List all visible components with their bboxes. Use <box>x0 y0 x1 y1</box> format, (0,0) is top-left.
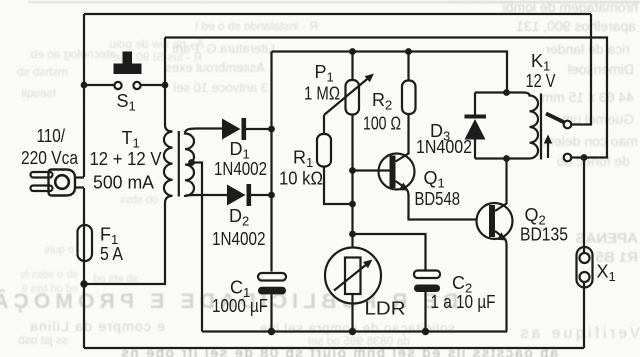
node LDR C2 branch junction <box>349 231 356 238</box>
transformer T1 <box>85 85 227 284</box>
svg-text:mao con deleito: mao con deleito <box>539 133 638 149</box>
svg-text:tseuqil: tseuqil <box>21 86 56 100</box>
resistor R2 100 ohm <box>363 52 416 155</box>
svg-text:hromatagem de lombi: hromatagem de lombi <box>503 0 638 15</box>
svg-text:1N4002: 1N4002 <box>212 229 266 249</box>
svg-text:Literatura G. Parti: Literatura G. Parti <box>172 41 275 56</box>
node C1 ground <box>268 328 275 335</box>
wire P1 wiper bus vertical <box>351 115 353 259</box>
wire X1 top lead <box>583 158 585 255</box>
transistor Q1 BD548 <box>353 152 461 209</box>
svg-text:sb o sdss ls: sb o sdss ls <box>20 269 78 281</box>
svg-text:ab oaçstss ils ed sel bnm oiur: ab oaçstss ils ed sel bnm oiurt sb 08 de… <box>120 345 558 357</box>
node junction S1 right <box>162 82 169 89</box>
svg-text:1000 µF: 1000 µF <box>212 296 268 316</box>
svg-text:BD548: BD548 <box>415 189 461 209</box>
wire rectifier output vertical <box>270 52 272 272</box>
svg-text:44 63 x 15 mm: 44 63 x 15 mm <box>541 89 634 105</box>
fuse F1 <box>78 225 124 265</box>
svg-text:ss jst osb: ss jst osb <box>18 333 68 347</box>
node fuse T1 junction <box>80 280 87 287</box>
svg-text:o quis: o quis <box>44 244 74 256</box>
wire outer bottom rail <box>84 347 584 349</box>
capacitor C2 <box>414 271 496 332</box>
node T1 center tap <box>188 159 195 166</box>
svg-text:Verifique as: Verifique as <box>517 325 640 342</box>
wire X1 bottom lead <box>583 281 585 348</box>
wire relay armature feed right side <box>571 14 591 125</box>
svg-text:3 antvoce 10 sel: 3 antvoce 10 sel <box>173 80 268 95</box>
node D1 cathode junction <box>268 126 275 133</box>
svg-text:500 mA: 500 mA <box>93 173 154 193</box>
svg-text:BD135: BD135 <box>520 225 568 245</box>
node P1 top <box>349 48 356 55</box>
relay armature and contacts <box>544 114 572 162</box>
wire left vertical rail <box>83 14 85 348</box>
svg-text:5 A: 5 A <box>100 244 123 264</box>
node D2 cathode junction <box>268 192 275 199</box>
svg-text:1N4002: 1N4002 <box>416 137 472 157</box>
svg-text:R - lnstalando sb o ed l: R - lnstalando sb o ed l <box>195 19 318 33</box>
node Q1 base junction <box>349 167 356 174</box>
capacitor C1 1000uF <box>212 273 286 332</box>
resistor R1 10k <box>279 115 353 204</box>
svg-text:1 a 10 µF: 1 a 10 µF <box>431 292 496 312</box>
svg-text:aparelhos 900, 131: aparelhos 900, 131 <box>516 18 636 34</box>
plug 110/220 Vca <box>21 126 84 196</box>
terminal X1 <box>577 247 616 288</box>
wire center tap to ground rail <box>192 163 203 332</box>
svg-text:mshsb sb: mshsb sb <box>16 65 68 79</box>
svg-text:1 MΩ: 1 MΩ <box>304 84 340 104</box>
svg-text:10 kΩ: 10 kΩ <box>279 169 323 189</box>
svg-text:12 + 12 V: 12 + 12 V <box>90 149 162 169</box>
svg-text:220 Vca: 220 Vca <box>21 148 79 168</box>
node X1 top junction <box>581 154 588 161</box>
wire +12V top rail <box>272 52 508 93</box>
node relay 12V top <box>503 89 510 96</box>
svg-text:100 Ω: 100 Ω <box>363 114 401 134</box>
wire outer top rail <box>84 13 591 15</box>
svg-text:12 V: 12 V <box>526 71 556 91</box>
node C2 ground <box>422 328 429 335</box>
wire branch to C2 <box>353 234 426 271</box>
potentiometer P1 1M <box>304 52 374 116</box>
node R1 bottom junction <box>349 201 356 208</box>
svg-text:1N4002: 1N4002 <box>214 159 267 179</box>
svg-text:atecnolog ao eb: atecnolog ao eb <box>30 47 116 61</box>
relay K1 coil <box>475 51 556 160</box>
pushbutton S1 <box>84 52 165 114</box>
svg-text:e compre da Lilina: e compre da Lilina <box>29 318 165 334</box>
node R2 top <box>405 48 412 55</box>
diode D3 1N4002 <box>416 93 507 159</box>
node relay Q2 collector <box>503 155 510 162</box>
wire inner top rail <box>165 38 607 158</box>
transistor Q2 BD135 <box>477 159 569 332</box>
svg-text:rica de lander: rica de lander <box>545 41 630 57</box>
node LDR ground <box>349 328 356 335</box>
svg-text:Assembroul exes: Assembroul exes <box>165 60 265 75</box>
diode D1 1N4002 <box>214 118 272 179</box>
svg-text:Dimensoel: Dimensoel <box>568 61 634 77</box>
diode D2 1N4002 <box>212 184 272 249</box>
wire Q1 emitter to Q2 base <box>406 188 490 220</box>
LDR <box>325 248 406 332</box>
svg-text:ob sbss: ob sbss <box>120 194 158 206</box>
node junction S1 left <box>81 82 88 89</box>
wire ground rail <box>202 330 507 332</box>
svg-text:LDR: LDR <box>365 299 406 319</box>
svg-text:110/: 110/ <box>37 126 66 146</box>
